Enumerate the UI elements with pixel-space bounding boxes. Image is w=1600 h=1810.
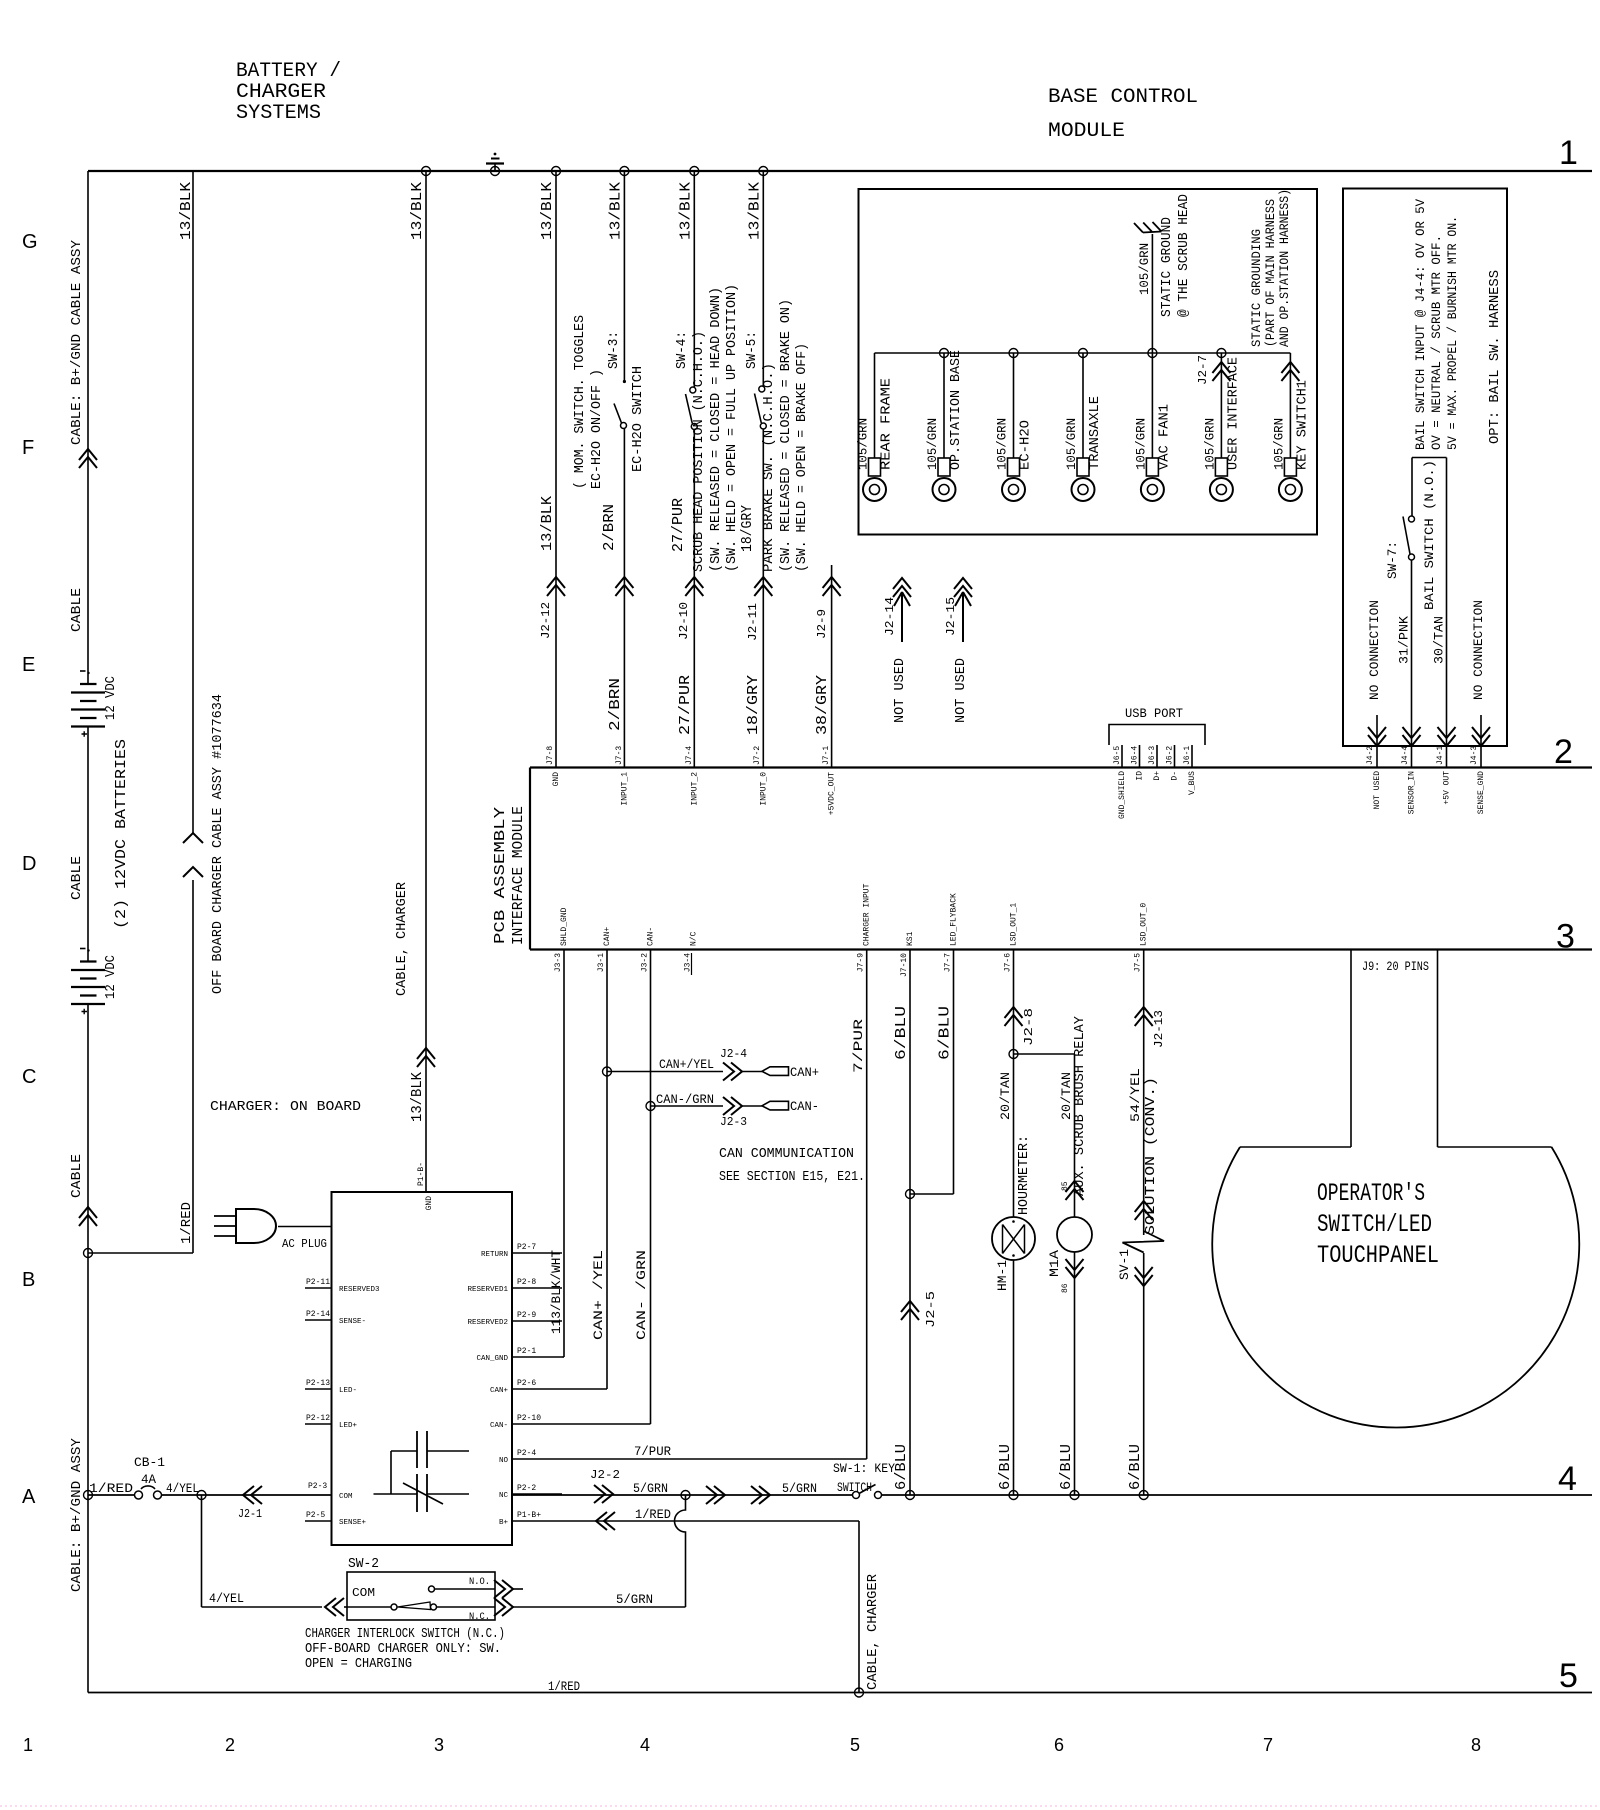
- wire M1A branch down: [1074, 1054, 1076, 1217]
- svg-text:27/PUR: 27/PUR: [677, 675, 694, 735]
- svg-text:SW-3:: SW-3:: [606, 331, 622, 369]
- svg-text:STATIC GROUNDING: STATIC GROUNDING: [1249, 229, 1264, 347]
- svg-text:J2-13: J2-13: [1152, 1010, 1166, 1048]
- node ground: [491, 167, 500, 176]
- svg-text:105/GRN: 105/GRN: [925, 418, 940, 470]
- SW-2 contacts: [347, 1606, 391, 1608]
- svg-text:P2-2: P2-2: [517, 1484, 536, 1493]
- svg-text:J6-4: J6-4: [1131, 746, 1140, 765]
- wire CAN+ to PCB: [562, 1388, 607, 1390]
- svg-text:SENSE-: SENSE-: [339, 1318, 366, 1326]
- chevron SV-1 bottom: [1135, 1267, 1153, 1286]
- svg-text:12 VDC: 12 VDC: [103, 676, 119, 720]
- wire CAN+ branch: [607, 1071, 723, 1073]
- svg-text:SEE SECTION E15, E21.: SEE SECTION E15, E21.: [719, 1169, 865, 1185]
- svg-text:J4-3: J4-3: [1470, 746, 1479, 765]
- chevron J2-5: [901, 1301, 919, 1320]
- cable break chevron lower left: [79, 1207, 97, 1226]
- svg-text:113/BLK/WHT: 113/BLK/WHT: [549, 1250, 564, 1334]
- svg-text:J2-5: J2-5: [924, 1291, 938, 1328]
- svg-text:J7-2: J7-2: [753, 746, 762, 765]
- svg-text:CAN-: CAN-: [790, 1099, 819, 1114]
- chevron J2-8: [1005, 1007, 1023, 1026]
- svg-text:105/GRN: 105/GRN: [1271, 418, 1286, 470]
- connector J2-15 not used: [954, 578, 972, 597]
- chevron SW-2 input: [325, 1598, 344, 1616]
- node static bus: [1148, 349, 1157, 358]
- chevron J2-12: [547, 577, 565, 596]
- charger pin P2-8 RESERVED1: [512, 1287, 562, 1289]
- battery B1 12VDC: [80, 683, 97, 685]
- solenoid valve SV-1: [1123, 1231, 1165, 1253]
- node A-row left: [84, 1491, 93, 1500]
- charger pin P2-4 NO: [512, 1458, 562, 1460]
- svg-text:P2-12: P2-12: [306, 1414, 330, 1423]
- node static bus: [1217, 349, 1226, 358]
- charger pin P2-11 RESERVED3: [305, 1287, 332, 1289]
- svg-text:(SW. HELD = OPEN = FULL UP POS: (SW. HELD = OPEN = FULL UP POSITION): [724, 284, 740, 572]
- svg-text:6/BLU: 6/BLU: [937, 1006, 954, 1060]
- svg-text:SW-5:: SW-5:: [744, 331, 760, 369]
- chevron key switch1 ground: [1281, 362, 1299, 381]
- svg-text:13/BLK: 13/BLK: [539, 496, 556, 551]
- svg-text:J4-4: J4-4: [1401, 746, 1410, 765]
- svg-text:(2) 12VDC BATTERIES: (2) 12VDC BATTERIES: [113, 739, 130, 929]
- wire J4-2: [1376, 715, 1378, 768]
- wire hourmeter to A-row: [1013, 1260, 1015, 1495]
- wire 13/BLK charger ground: [425, 171, 427, 1192]
- static ground chassis symbol: [1134, 222, 1162, 233]
- svg-text:13/BLK: 13/BLK: [677, 182, 694, 240]
- svg-text:( MOM. SWITCH. TOGGLES: ( MOM. SWITCH. TOGGLES: [572, 315, 588, 489]
- svg-text:J4-2: J4-2: [1366, 746, 1375, 765]
- svg-text:1/RED: 1/RED: [179, 1202, 195, 1244]
- svg-text:CABLE: B+/GND CABLE ASSY: CABLE: B+/GND CABLE ASSY: [69, 239, 85, 445]
- svg-text:CAN+: CAN+: [603, 927, 612, 946]
- switch SW-4 scrub head position: [690, 387, 696, 393]
- svg-text:SV-1: SV-1: [1117, 1249, 1132, 1280]
- svg-text:P1-B+: P1-B+: [517, 1511, 541, 1520]
- svg-text:3: 3: [434, 1735, 444, 1755]
- node CAN- branch: [646, 1102, 655, 1111]
- SW-2 N.O. wire: [435, 1588, 496, 1590]
- svg-text:LED_FLYBACK: LED_FLYBACK: [950, 893, 959, 946]
- svg-text:J2-15: J2-15: [944, 597, 958, 636]
- svg-text:LED+: LED+: [339, 1422, 358, 1430]
- svg-text:NOT USED: NOT USED: [953, 658, 969, 723]
- svg-text:J3-2: J3-2: [641, 953, 650, 972]
- svg-text:13/BLK: 13/BLK: [409, 182, 426, 240]
- svg-text:P2-14: P2-14: [306, 1310, 330, 1319]
- node SV-1 A-row: [1139, 1491, 1148, 1500]
- wire SW-4 line lower: [693, 430, 695, 768]
- svg-text:CABLE, CHARGER: CABLE, CHARGER: [394, 881, 410, 996]
- svg-text:P1-B-: P1-B-: [417, 1162, 426, 1186]
- svg-text:CAN+: CAN+: [790, 1065, 819, 1080]
- svg-text:J7-1: J7-1: [822, 746, 831, 765]
- svg-text:38/GRY: 38/GRY: [814, 675, 831, 735]
- svg-text:GND: GND: [552, 772, 561, 787]
- svg-text:CABLE: B+/GND ASSY: CABLE: B+/GND ASSY: [69, 1437, 85, 1592]
- svg-text:CAN+/YEL: CAN+/YEL: [659, 1057, 714, 1072]
- svg-text:J7-6: J7-6: [1004, 953, 1013, 972]
- svg-text:3: 3: [1556, 918, 1575, 956]
- chevron SW-4 line: [685, 577, 703, 596]
- svg-text:1/RED: 1/RED: [548, 1679, 580, 1694]
- CAN+ bullet connector: [762, 1067, 789, 1076]
- svg-text:P2-1: P2-1: [517, 1347, 536, 1356]
- wire off-board charger cable upper: [192, 171, 194, 833]
- svg-text:J4-1: J4-1: [1436, 746, 1445, 765]
- charger pin P2-2 NC: [512, 1493, 562, 1495]
- svg-text:RESERVED2: RESERVED2: [467, 1319, 508, 1327]
- wire NO 7/PUR: [562, 1458, 867, 1460]
- svg-text:D+: D+: [1153, 771, 1162, 781]
- svg-text:AND OP.STATION HARNESS): AND OP.STATION HARNESS): [1277, 189, 1292, 347]
- svg-text:105/GRN: 105/GRN: [1133, 418, 1148, 470]
- svg-text:12 VDC: 12 VDC: [103, 955, 119, 999]
- svg-text:13/BLK: 13/BLK: [409, 1072, 426, 1122]
- wire SW-5 line upper: [762, 171, 764, 386]
- charger pin P2-1 CAN_GND: [512, 1356, 562, 1358]
- wire J4-3: [1480, 715, 1482, 768]
- svg-text:ID: ID: [1136, 771, 1145, 781]
- node B-row junction: [84, 1249, 93, 1258]
- svg-text:5/GRN: 5/GRN: [633, 1481, 668, 1496]
- svg-text:J7-3: J7-3: [615, 746, 624, 765]
- wire SW-3 line upper: [623, 171, 625, 380]
- svg-text:6/BLU: 6/BLU: [1058, 1444, 1075, 1490]
- svg-text:P2-5: P2-5: [306, 1511, 325, 1520]
- wire LSD_OUT_0 to SV-1: [1143, 950, 1145, 1236]
- chevron M1A pin 85: [1066, 1181, 1084, 1200]
- svg-text:7/PUR: 7/PUR: [851, 1019, 866, 1073]
- svg-text:13/BLK: 13/BLK: [539, 182, 556, 240]
- svg-text:P2-9: P2-9: [517, 1311, 536, 1320]
- svg-text:(SW. RELEASED = CLOSED = BRAKE: (SW. RELEASED = CLOSED = BRAKE ON): [778, 299, 794, 572]
- wire battery negative cable (left vertical): [87, 171, 89, 684]
- charger pin P2-6 CAN+: [512, 1388, 562, 1390]
- svg-text:1/RED: 1/RED: [89, 1481, 133, 1496]
- svg-text:BATTERY /: BATTERY /: [236, 60, 341, 83]
- svg-text:TRANSAXLE: TRANSAXLE: [1087, 396, 1103, 470]
- zone line 5 (1/RED bottom wire): [88, 1692, 1592, 1694]
- node A-row 5/GRN junction: [681, 1491, 690, 1500]
- chevron J2-7 user interface: [1212, 362, 1230, 381]
- svg-text:CABLE: CABLE: [69, 588, 85, 632]
- node static bus: [1009, 349, 1018, 358]
- svg-text:CAN+: CAN+: [490, 1387, 509, 1395]
- svg-text:J7-4: J7-4: [685, 746, 694, 765]
- USB pin J6-4 ID: [1139, 745, 1141, 768]
- svg-text:4/YEL: 4/YEL: [166, 1481, 199, 1496]
- svg-text:P2-3: P2-3: [308, 1482, 327, 1491]
- svg-text:31/PNK: 31/PNK: [1397, 616, 1412, 664]
- svg-text:J3-1: J3-1: [597, 953, 606, 972]
- svg-text:VAC FAN1: VAC FAN1: [1156, 404, 1172, 470]
- svg-text:4/YEL: 4/YEL: [209, 1591, 244, 1606]
- svg-text:RETURN: RETURN: [481, 1251, 508, 1259]
- svg-text:(SW. RELEASED = CLOSED = HEAD: (SW. RELEASED = CLOSED = HEAD DOWN): [708, 287, 724, 572]
- svg-text:30/TAN: 30/TAN: [1432, 616, 1447, 664]
- svg-text:P2-8: P2-8: [517, 1278, 536, 1287]
- wire off-board charger cable lower: [192, 880, 194, 1253]
- svg-text:OP.STATION BASE: OP.STATION BASE: [948, 350, 964, 470]
- svg-text:D: D: [22, 853, 36, 875]
- svg-text:J3-3: J3-3: [554, 953, 563, 972]
- svg-text:PARK BRAKE SW. (N.C.H.O.): PARK BRAKE SW. (N.C.H.O.): [761, 363, 777, 572]
- wire KS1 6/BLU: [909, 950, 911, 1496]
- svg-text:2: 2: [225, 1735, 235, 1755]
- svg-text:J2-7: J2-7: [1196, 355, 1210, 385]
- connector J9 20 pins neck: [1350, 950, 1352, 1148]
- cable break chevrons x193: [183, 833, 203, 843]
- wire battery positive cable down: [87, 1004, 89, 1693]
- svg-text:OPEN = CHARGING: OPEN = CHARGING: [305, 1656, 412, 1672]
- svg-text:CAN-: CAN-: [647, 927, 656, 946]
- svg-text:F: F: [22, 437, 34, 459]
- svg-text:CAN COMMUNICATION: CAN COMMUNICATION: [719, 1146, 854, 1162]
- hourmeter HM-1: [992, 1217, 1035, 1260]
- charger pin P2-9 RESERVED2: [512, 1320, 562, 1322]
- AC plug wire: [278, 1226, 332, 1228]
- zone line 2 (PCB module top edge): [530, 766, 1592, 768]
- bail switch inner box: [1412, 457, 1447, 459]
- svg-text:SW-1: KEY: SW-1: KEY: [833, 1461, 895, 1476]
- svg-text:SENSOR_IN: SENSOR_IN: [1408, 771, 1417, 814]
- node 13/BLK bus: [422, 167, 431, 176]
- node M1A A-row: [1070, 1491, 1079, 1500]
- static ground bus wire: [875, 352, 1291, 354]
- svg-text:105/GRN: 105/GRN: [1064, 418, 1079, 470]
- svg-text:SENSE+: SENSE+: [339, 1519, 367, 1527]
- svg-text:CHARGER: ON BOARD: CHARGER: ON BOARD: [210, 1099, 361, 1115]
- charger pin P2-10 CAN-: [512, 1423, 562, 1425]
- svg-text:OV = NEUTRAL / SCRUB MTR OFF.: OV = NEUTRAL / SCRUB MTR OFF.: [1429, 235, 1444, 450]
- svg-text:J7-5: J7-5: [1134, 953, 1143, 972]
- svg-text:5: 5: [850, 1735, 860, 1755]
- svg-text:J6-1: J6-1: [1183, 746, 1192, 765]
- svg-text:13/BLK: 13/BLK: [746, 182, 763, 240]
- svg-text:J2-9: J2-9: [815, 609, 829, 639]
- svg-text:CAN-/GRN: CAN-/GRN: [656, 1092, 714, 1107]
- svg-text:B: B: [22, 1269, 35, 1291]
- svg-text:6/BLU: 6/BLU: [893, 1006, 910, 1060]
- chevrons A-row toward key switch: [706, 1486, 725, 1504]
- svg-text:E: E: [22, 654, 35, 676]
- zone line 3 (PCB module bottom edge): [530, 948, 1592, 950]
- svg-text:CHARGER INTERLOCK SWITCH (N.C.: CHARGER INTERLOCK SWITCH (N.C.): [305, 1626, 505, 1642]
- svg-text:NOT USED: NOT USED: [1373, 771, 1382, 810]
- operator touchpanel circle: [1212, 1147, 1579, 1428]
- svg-text:27/PUR: 27/PUR: [670, 498, 687, 552]
- svg-text:P2-6: P2-6: [517, 1379, 536, 1388]
- charger box: [332, 1192, 513, 1545]
- svg-text:OPT: BAIL SW. HARNESS: OPT: BAIL SW. HARNESS: [1487, 270, 1503, 444]
- svg-text:AC PLUG: AC PLUG: [282, 1237, 327, 1251]
- relay coil M1A: [1057, 1217, 1092, 1252]
- wire SW-3 line lower: [623, 429, 625, 768]
- svg-text:CAN- /GRN: CAN- /GRN: [634, 1250, 649, 1340]
- svg-text:J9: 20 PINS: J9: 20 PINS: [1362, 959, 1429, 974]
- svg-text:EC-H2O SWITCH: EC-H2O SWITCH: [630, 366, 646, 472]
- svg-text:KEY SWITCH1: KEY SWITCH1: [1294, 380, 1310, 470]
- svg-text:V_BUS: V_BUS: [1188, 771, 1197, 795]
- svg-text:N.O.: N.O.: [469, 1577, 490, 1588]
- battery B2 12VDC: [80, 960, 97, 962]
- svg-text:LED-: LED-: [339, 1387, 357, 1395]
- charger pin P2-13 LED-: [305, 1388, 332, 1390]
- svg-text:6: 6: [1054, 1735, 1064, 1755]
- svg-text:7/PUR: 7/PUR: [634, 1444, 671, 1459]
- cable break chevron x426: [417, 1048, 435, 1067]
- svg-text:B+: B+: [499, 1519, 509, 1527]
- svg-text:J2-8: J2-8: [1022, 1008, 1036, 1046]
- svg-text:4: 4: [1558, 1460, 1577, 1498]
- svg-text:USB PORT: USB PORT: [1125, 706, 1183, 721]
- node HM-1 A-row: [1009, 1491, 1018, 1500]
- svg-text:7: 7: [1263, 1735, 1273, 1755]
- svg-text:SHLD_GND: SHLD_GND: [560, 907, 569, 946]
- svg-text:C: C: [22, 1066, 36, 1088]
- svg-text:8: 8: [1471, 1735, 1481, 1755]
- svg-text:CAN-: CAN-: [490, 1422, 508, 1430]
- svg-text:20/TAN: 20/TAN: [998, 1072, 1013, 1120]
- ground ring terminal TRANSAXLE: [1082, 353, 1084, 458]
- svg-text:USER INTERFACE: USER INTERFACE: [1225, 357, 1241, 470]
- svg-text:CHARGER: CHARGER: [236, 81, 326, 104]
- svg-text:105/GRN: 105/GRN: [1137, 243, 1152, 295]
- svg-text:CABLE, CHARGER: CABLE, CHARGER: [865, 1573, 881, 1690]
- svg-text:COM: COM: [339, 1493, 353, 1501]
- CAN- bullet connector: [762, 1101, 789, 1110]
- svg-text:LSD_OUT_0: LSD_OUT_0: [1140, 903, 1149, 946]
- wire CAN- to PCB: [562, 1423, 651, 1425]
- svg-text:EC-H2O: EC-H2O: [1018, 420, 1034, 470]
- svg-text:MODULE: MODULE: [1048, 120, 1125, 143]
- chevrons J4 pins: [1368, 727, 1386, 746]
- PCB assembly interface module box left edge: [529, 768, 531, 950]
- svg-text:OPERATOR'S: OPERATOR'S: [1317, 1179, 1425, 1208]
- svg-text:OFF BOARD CHARGER CABLE ASSY #: OFF BOARD CHARGER CABLE ASSY #1077634: [211, 694, 226, 994]
- wire 4/YEL down to SW-2: [201, 1495, 203, 1607]
- chevron M1A pin 86: [1066, 1259, 1084, 1278]
- svg-text:J7-10: J7-10: [900, 953, 909, 977]
- svg-text:HOURMETER:: HOURMETER:: [1016, 1135, 1032, 1215]
- svg-text:(SW. HELD = OPEN = BRAKE OFF): (SW. HELD = OPEN = BRAKE OFF): [794, 343, 810, 572]
- wire SW-5 line lower: [762, 429, 764, 768]
- svg-text:6/BLU: 6/BLU: [1127, 1444, 1144, 1490]
- svg-text:J2-12: J2-12: [539, 602, 553, 639]
- switch SW-3 EC-H2O: [623, 380, 626, 383]
- svg-text:J7-8: J7-8: [546, 746, 555, 765]
- svg-text:J6-2: J6-2: [1166, 746, 1175, 765]
- svg-text:2: 2: [1554, 733, 1573, 771]
- charger pin P2-5 SENSE+: [305, 1520, 332, 1522]
- switch SW-5 park brake: [759, 386, 765, 392]
- ground ring terminal EC-H2O: [1013, 353, 1015, 458]
- svg-text:J2-1: J2-1: [238, 1507, 262, 1521]
- svg-text:NO CONNECTION: NO CONNECTION: [1367, 600, 1382, 700]
- svg-text:P2-11: P2-11: [306, 1278, 330, 1287]
- chevron SW-5 line: [754, 577, 772, 596]
- svg-text:SWITCH/LED: SWITCH/LED: [1317, 1210, 1432, 1239]
- svg-text:OFF-BOARD CHARGER ONLY: SW.: OFF-BOARD CHARGER ONLY: SW.: [305, 1641, 501, 1657]
- wire between batteries: [87, 727, 89, 962]
- svg-text:1: 1: [1559, 134, 1578, 172]
- svg-text:CHARGER INPUT: CHARGER INPUT: [863, 883, 872, 946]
- wire B+ 1/RED: [562, 1520, 859, 1522]
- svg-text:NO CONNECTION: NO CONNECTION: [1471, 600, 1486, 700]
- svg-text:J7-7: J7-7: [944, 953, 953, 972]
- wire SV-1 to A-row: [1143, 1253, 1145, 1495]
- svg-text:85: 85: [1061, 1181, 1070, 1191]
- charger pin P2-14 SENSE-: [305, 1319, 332, 1321]
- svg-text:CAN+ /YEL: CAN+ /YEL: [591, 1250, 606, 1340]
- svg-text:6/BLU: 6/BLU: [997, 1444, 1014, 1490]
- node J2-12 bus: [552, 167, 561, 176]
- svg-text:EC-H2O ON/OFF ): EC-H2O ON/OFF ): [589, 369, 605, 489]
- wire SW-4 line upper: [693, 171, 695, 387]
- svg-text:5: 5: [1559, 1657, 1578, 1695]
- svg-text:J6-3: J6-3: [1148, 746, 1157, 765]
- svg-text:G: G: [22, 231, 38, 253]
- chevron J2-4: [723, 1063, 742, 1081]
- wire static ground to scrub head: [1151, 234, 1153, 353]
- charger pin P2-12 LED+: [305, 1423, 332, 1425]
- svg-text:SCRUB HEAD POSITION (N.C.H.O.): SCRUB HEAD POSITION (N.C.H.O.): [691, 331, 707, 572]
- svg-text:CAN_GND: CAN_GND: [476, 1355, 508, 1363]
- svg-text:5V = MAX. PROPEL / BURNISH MTR: 5V = MAX. PROPEL / BURNISH MTR ON.: [1445, 216, 1460, 450]
- connector J2-14 not used: [893, 578, 911, 597]
- svg-text:J2-10: J2-10: [677, 602, 691, 640]
- wire 113/BLK/WHT CAN_GND to PCB: [562, 1356, 564, 1358]
- svg-text:KS1: KS1: [906, 931, 915, 946]
- chevron J2-9: [823, 577, 841, 596]
- SW-2 N.C. wire: [437, 1606, 496, 1608]
- svg-text:105/GRN: 105/GRN: [1202, 418, 1217, 470]
- svg-text:LSD_OUT_1: LSD_OUT_1: [1010, 903, 1019, 946]
- charger pin P2-7 RETURN: [512, 1252, 562, 1254]
- svg-text:J6-5: J6-5: [1113, 746, 1122, 765]
- switch SW-2 charger interlock box: [347, 1572, 495, 1620]
- USB pin J6-5 GND_SHIELD: [1121, 745, 1123, 768]
- cable break chevron upper left: [79, 449, 97, 468]
- USB pin J6-1 V_BUS: [1191, 745, 1193, 768]
- svg-text:J2-3: J2-3: [720, 1115, 747, 1129]
- svg-text:18/GRY: 18/GRY: [745, 675, 762, 735]
- svg-text:4: 4: [640, 1735, 650, 1755]
- wire CAN- branch: [651, 1105, 724, 1107]
- USB pin J6-2 D-: [1174, 745, 1176, 768]
- chevron B+ 1/RED: [596, 1512, 615, 1530]
- wire J2-12 13/BLK line: [555, 171, 557, 768]
- svg-text:D-: D-: [1171, 771, 1180, 781]
- ground ring terminal REAR FRAME: [874, 353, 876, 458]
- svg-text:P2-4: P2-4: [517, 1449, 536, 1458]
- svg-text:J2-14: J2-14: [883, 597, 897, 636]
- svg-text:N/C: N/C: [690, 931, 699, 946]
- svg-text:105/GRN: 105/GRN: [856, 418, 871, 470]
- circuit breaker CB-1 4A: [135, 1491, 143, 1499]
- svg-text:54/YEL: 54/YEL: [1128, 1068, 1143, 1122]
- wire LSD_OUT_1 to hourmeter: [1013, 950, 1015, 1218]
- svg-text:SYSTEMS: SYSTEMS: [236, 102, 321, 125]
- svg-text:(PART OF MAIN HARNESS: (PART OF MAIN HARNESS: [1263, 199, 1278, 347]
- svg-text:2/BRN: 2/BRN: [607, 678, 624, 731]
- svg-text:CABLE: CABLE: [69, 856, 85, 900]
- svg-text:INPUT_0: INPUT_0: [759, 772, 768, 806]
